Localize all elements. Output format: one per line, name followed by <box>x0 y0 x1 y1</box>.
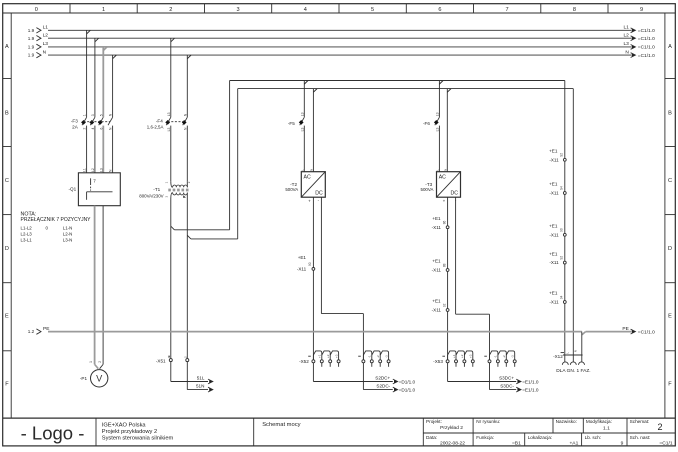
wire jog L2 drop F3 <box>95 38 99 42</box>
terminal strip X51 <box>156 356 189 364</box>
svg-text:B: B <box>5 110 9 116</box>
svg-text:-X11: -X11 <box>432 268 442 273</box>
svg-text:L3: L3 <box>300 112 304 116</box>
wire T3 plus output <box>447 197 449 360</box>
svg-text:=E1/1.0: =E1/1.0 <box>522 379 539 384</box>
svg-text:L1: L1 <box>43 25 49 31</box>
title block company lines <box>102 422 174 441</box>
svg-text:Nr rysunku:: Nr rysunku: <box>476 419 500 424</box>
terminal X11 heater tap #4 <box>549 251 566 265</box>
svg-text:+E1: +E1 <box>432 299 441 304</box>
terminal X11 heater tap #3 <box>549 224 566 238</box>
svg-text:Data:: Data: <box>426 435 437 440</box>
wire F4 to T1 left <box>170 126 172 182</box>
svg-text:4: 4 <box>91 127 95 129</box>
svg-text:A: A <box>5 44 9 50</box>
frame row ticks <box>3 79 676 351</box>
svg-text:1: 1 <box>89 361 93 363</box>
svg-text:Projekt przykładowy 2: Projekt przykładowy 2 <box>102 429 157 435</box>
svg-text:DC: DC <box>315 191 323 197</box>
svg-text:1,6-2,5A: 1,6-2,5A <box>147 125 164 130</box>
svg-text:B: B <box>668 110 672 116</box>
svg-text:L3: L3 <box>99 168 103 172</box>
terminal strip X53 <box>433 351 516 367</box>
svg-text:51L: 51L <box>197 376 205 381</box>
svg-text:L3: L3 <box>623 41 629 47</box>
svg-text:System sterowania silnikiem: System sterowania silnikiem <box>102 436 174 442</box>
svg-text:Modyfikacja:: Modyfikacja: <box>586 419 612 424</box>
wire T2 plus output <box>312 197 314 360</box>
svg-text:0: 0 <box>35 7 38 13</box>
svg-text:+2: +2 <box>326 354 330 358</box>
svg-text:Schemat mocy: Schemat mocy <box>262 422 300 428</box>
svg-text:-F3: -F3 <box>71 119 78 124</box>
svg-text:1.2: 1.2 <box>28 329 35 334</box>
wire F6 to T3 <box>438 126 440 172</box>
svg-text:Projekt:: Projekt: <box>426 419 442 424</box>
title block modyfikacja cell <box>586 419 612 431</box>
svg-text:1: 1 <box>102 7 105 13</box>
wire drop bus to F6 <box>438 81 440 118</box>
svg-text:N: N <box>573 350 577 352</box>
svg-text:+E1: +E1 <box>549 251 558 256</box>
svg-text:+E1: +E1 <box>549 291 558 296</box>
svg-text:=D1/1.0: =D1/1.0 <box>399 379 416 384</box>
svg-text:-3: -3 <box>384 355 388 358</box>
wire T3 minus output <box>456 197 490 360</box>
svg-text:C: C <box>668 178 672 184</box>
svg-text:L3: L3 <box>300 127 304 131</box>
svg-text:2: 2 <box>169 7 172 13</box>
title block project cell <box>426 419 463 431</box>
svg-text:2002-08-22: 2002-08-22 <box>440 441 465 447</box>
svg-text:=C1/1.0: =C1/1.0 <box>638 36 655 42</box>
svg-text:+E1: +E1 <box>432 216 441 221</box>
wire upper 230V bus <box>230 80 565 82</box>
svg-text:L3: L3 <box>167 112 171 116</box>
svg-text:L3-L1: L3-L1 <box>21 237 33 242</box>
svg-text:500VA: 500VA <box>421 187 434 192</box>
svg-text:500VA: 500VA <box>285 187 298 192</box>
wire X53 to S3DC+ <box>448 363 521 384</box>
wire F3 to Q1 pole2 <box>94 126 96 173</box>
svg-text:1.9: 1.9 <box>28 53 35 58</box>
terminal X11 on T3 plus #1 <box>432 216 449 230</box>
svg-text:Nazwisko:: Nazwisko: <box>556 419 577 424</box>
wire T1 secondary right to X51 <box>186 199 188 359</box>
transformer T1 <box>139 181 191 198</box>
svg-text:L2: L2 <box>91 168 95 172</box>
fuse breaker F5 <box>288 112 304 131</box>
svg-text:=C1/1.0: =C1/1.0 <box>638 45 655 51</box>
svg-text:2: 2 <box>83 127 87 129</box>
svg-text:-X11: -X11 <box>432 225 442 230</box>
svg-text:5: 5 <box>99 114 103 116</box>
svg-text:+3: +3 <box>469 354 473 358</box>
svg-text:+E1: +E1 <box>549 149 558 154</box>
wire drop N to F4 <box>186 55 188 117</box>
svg-text:86: 86 <box>442 221 446 225</box>
wire jog lower bus T3 drop <box>447 89 451 93</box>
svg-text:F: F <box>668 382 672 388</box>
svg-text:L3: L3 <box>435 127 439 131</box>
terminal X11 on T2 plus <box>297 255 315 272</box>
wire lower bus right drop <box>572 89 574 362</box>
wire X53 to S3DC- <box>490 363 522 392</box>
label S3DC- <box>500 384 539 393</box>
svg-text:-X53: -X53 <box>433 359 443 364</box>
svg-text:F: F <box>5 382 9 388</box>
wire F5 to T2 <box>303 126 305 172</box>
svg-text:7: 7 <box>506 7 509 13</box>
frame column numbers <box>35 7 643 13</box>
wire bus to T3 pin2 <box>446 89 448 172</box>
title block lb sch cell <box>585 435 624 447</box>
wire lower 230V bus <box>238 88 574 90</box>
svg-text:L2-L3: L2-L3 <box>21 231 33 236</box>
terminal X11 heater tap #2 <box>549 182 566 196</box>
svg-text:4: 4 <box>304 7 307 13</box>
terminal X11 on T3 plus #2 <box>432 259 449 273</box>
wire drop L1 to F3 pin1 <box>86 30 88 117</box>
power supply T3 <box>421 169 461 204</box>
wire X51 to 51N <box>187 362 213 392</box>
wire drop L3 to F3 pin5 <box>102 47 104 117</box>
wire bus to T2 pin2 <box>312 89 314 172</box>
svg-text:-X11: -X11 <box>549 157 559 162</box>
svg-text:-X11: -X11 <box>549 260 559 265</box>
svg-text:90: 90 <box>308 262 312 266</box>
svg-text:AC: AC <box>439 175 446 181</box>
svg-text:-X11: -X11 <box>297 267 307 272</box>
wire F3 to Q1 pole1 <box>86 126 88 173</box>
wire rail L3 <box>28 41 655 51</box>
svg-text:L3-N: L3-N <box>63 237 73 242</box>
svg-text:1.9: 1.9 <box>28 45 35 50</box>
label S2DC+ <box>375 376 415 385</box>
svg-text:S2DC-: S2DC- <box>376 384 390 389</box>
wire jog N drop F4 <box>187 55 191 59</box>
svg-text:-3: -3 <box>511 355 515 358</box>
svg-text:9: 9 <box>621 441 624 447</box>
wire branch to lower bus <box>187 89 237 239</box>
svg-text:L3: L3 <box>167 127 171 131</box>
wire X52 to S2DC+ <box>313 363 397 384</box>
svg-text:Schemat:: Schemat: <box>630 419 650 424</box>
frame left band line <box>10 13 12 418</box>
svg-text:800VA/230V: 800VA/230V <box>139 193 163 198</box>
terminal X11 heater tap #1 <box>549 149 566 163</box>
svg-text:1.9: 1.9 <box>28 36 35 41</box>
svg-text:=E1/1.0: =E1/1.0 <box>522 387 539 392</box>
svg-text:1.1: 1.1 <box>603 425 610 431</box>
svg-text:S3DC-: S3DC- <box>500 384 514 389</box>
svg-text:+2: +2 <box>460 354 464 358</box>
wire T1 secondary left to X51 <box>170 199 172 359</box>
svg-text:Lokalizacja:: Lokalizacja: <box>528 435 553 440</box>
label S2DC- <box>376 384 415 393</box>
wire jog L1 drop <box>87 30 91 34</box>
title block sch nast cell <box>630 435 673 447</box>
svg-text:N: N <box>310 169 314 171</box>
svg-text:7: 7 <box>93 179 96 184</box>
svg-text:N: N <box>43 49 47 55</box>
svg-text:DC: DC <box>451 191 459 197</box>
fuse breaker F6 <box>423 112 439 131</box>
svg-text:1: 1 <box>83 114 87 116</box>
title block lokalizacja cell <box>528 435 579 447</box>
note NOTA block <box>21 211 92 242</box>
svg-text:Lb. sch:: Lb. sch: <box>585 435 601 440</box>
svg-text:=C1/1: =C1/1 <box>659 441 672 447</box>
svg-text:-P1: -P1 <box>80 376 88 381</box>
svg-text:-1: -1 <box>494 355 498 358</box>
svg-text:AC: AC <box>304 175 311 181</box>
svg-text:L2-N: L2-N <box>63 231 73 236</box>
power supply T2 <box>285 169 325 204</box>
svg-text:=C1/1.0: =C1/1.0 <box>638 53 655 59</box>
wire F3 to Q1 pole4 <box>112 126 114 173</box>
svg-text:+E1: +E1 <box>549 224 558 229</box>
switch Q1 box <box>69 168 121 206</box>
svg-text:2: 2 <box>98 361 102 363</box>
svg-text:1.9: 1.9 <box>28 28 35 33</box>
svg-text:D: D <box>668 246 672 252</box>
svg-text:E: E <box>5 313 9 319</box>
svg-text:S2: S2 <box>560 256 564 260</box>
svg-text:-F6: -F6 <box>423 121 430 126</box>
svg-text:-X12: -X12 <box>553 354 563 359</box>
wire X52 to S2DC- <box>363 363 397 392</box>
svg-text:+E1: +E1 <box>432 259 441 264</box>
terminal strip X52 <box>299 351 390 367</box>
label S3DC+ <box>499 376 539 385</box>
circuit breaker F3 <box>71 113 113 130</box>
svg-text:+E1: +E1 <box>549 182 558 187</box>
svg-text:S2: S2 <box>560 153 564 157</box>
svg-text:C: C <box>5 178 9 184</box>
svg-text:V: V <box>96 374 103 384</box>
svg-text:2: 2 <box>657 422 662 432</box>
svg-text:-2: -2 <box>502 355 506 358</box>
wire F3 to Q1 pole3 <box>102 126 104 173</box>
wire rail L1 <box>28 25 655 34</box>
wire drop L2 to F4 <box>170 38 172 117</box>
svg-text:N: N <box>444 169 448 171</box>
svg-text:-Q1: -Q1 <box>69 186 77 191</box>
svg-text:-X11: -X11 <box>432 308 442 313</box>
svg-text:9: 9 <box>640 7 643 13</box>
svg-text:IGE+XAO Polska: IGE+XAO Polska <box>102 422 147 428</box>
svg-text:-X11: -X11 <box>549 232 559 237</box>
svg-text:S2DC+: S2DC+ <box>375 376 390 381</box>
svg-text:A: A <box>668 44 672 50</box>
title block data cell <box>426 435 465 447</box>
wire upper bus right drop <box>564 81 566 362</box>
svg-text:5: 5 <box>371 7 374 13</box>
wire X51 to 51L <box>171 362 213 384</box>
svg-text:L1: L1 <box>83 168 87 172</box>
wire PE drop to X12 <box>581 332 583 362</box>
frame top band line <box>3 12 676 14</box>
svg-text:=B1: =B1 <box>512 441 521 447</box>
wire jog N drop F3 <box>113 55 117 59</box>
wire Q1 to voltmeter left <box>94 206 96 365</box>
svg-text:Sch. nast:: Sch. nast: <box>630 435 651 440</box>
svg-text:+3: +3 <box>334 354 338 358</box>
svg-text:Przykład 2: Przykład 2 <box>440 425 463 431</box>
title block schemat cell <box>630 419 663 432</box>
svg-text:L1: L1 <box>623 25 629 31</box>
svg-text:-X11: -X11 <box>549 300 559 305</box>
svg-text:92: 92 <box>442 303 446 307</box>
svg-text:-F4: -F4 <box>156 119 163 124</box>
wire drop bus to F5 <box>303 81 305 118</box>
svg-text:L1-N: L1-N <box>63 226 73 231</box>
svg-text:6: 6 <box>438 7 441 13</box>
frame column ticks <box>70 4 608 13</box>
wire rail PE <box>28 326 655 335</box>
svg-text:=C1/1.0: =C1/1.0 <box>638 28 655 34</box>
svg-text:D: D <box>5 246 9 252</box>
svg-text:=C1/1.0: =C1/1.0 <box>638 329 655 335</box>
svg-text:E: E <box>668 313 672 319</box>
svg-text:90: 90 <box>560 228 564 232</box>
svg-text:94: 94 <box>560 295 564 299</box>
frame row letters <box>5 44 672 388</box>
title block grid <box>3 418 676 446</box>
svg-text:=D1/1.0: =D1/1.0 <box>399 387 416 392</box>
terminal X11 heater tap #5 <box>549 291 566 305</box>
svg-text:+1: +1 <box>318 354 322 358</box>
circuit breaker F4 <box>147 112 188 131</box>
svg-text:3: 3 <box>237 7 240 13</box>
svg-text:L3: L3 <box>435 112 439 116</box>
wire drop N to F3 pinN <box>112 55 114 117</box>
title block funkcja cell <box>476 435 521 447</box>
wire jog L2 drop F4 <box>171 38 175 42</box>
wire jog L3 drop <box>103 47 107 51</box>
svg-text:L2: L2 <box>623 33 629 39</box>
wire T2 minus output <box>321 197 363 360</box>
svg-text:-2: -2 <box>376 355 380 358</box>
wire drop L2 to F3 pin3 <box>94 38 96 117</box>
svg-text:2A: 2A <box>72 125 79 130</box>
svg-text:3: 3 <box>91 114 95 116</box>
svg-text:Funkcja:: Funkcja: <box>476 435 494 440</box>
svg-text:-X11: -X11 <box>549 191 559 196</box>
svg-text:8: 8 <box>573 7 576 13</box>
wire rail L2 <box>28 33 655 43</box>
svg-text:- Logo -: - Logo - <box>21 422 85 443</box>
svg-text:L2: L2 <box>43 33 49 39</box>
terminal strip X12 <box>553 350 584 365</box>
svg-text:L1-L2: L1-L2 <box>21 226 33 231</box>
svg-text:PE: PE <box>622 326 628 332</box>
svg-text:+1: +1 <box>452 354 456 358</box>
wire F4 to T1 right <box>186 126 188 182</box>
frame right band line <box>664 13 666 418</box>
wire Q1 to voltmeter right <box>102 206 104 365</box>
svg-text:+E1: +E1 <box>298 255 307 260</box>
wire jog upper bus F6 drop <box>439 81 443 85</box>
svg-text:S3DC+: S3DC+ <box>499 376 514 381</box>
wire jog lower bus T2 drop <box>313 89 317 93</box>
wire branch to upper bus <box>171 81 230 230</box>
svg-text:-F5: -F5 <box>288 121 295 126</box>
svg-text:+A1: +A1 <box>569 441 578 447</box>
svg-text:51N: 51N <box>196 384 204 389</box>
svg-text:-T1: -T1 <box>153 187 160 192</box>
voltmeter P1 <box>80 361 108 387</box>
svg-text:N: N <box>625 49 629 55</box>
svg-text:S4: S4 <box>560 186 564 190</box>
svg-text:-X51: -X51 <box>156 359 166 364</box>
svg-text:L3: L3 <box>43 41 49 47</box>
svg-text:88: 88 <box>442 263 446 267</box>
svg-text:DLA GN. 1 FAZ.: DLA GN. 1 FAZ. <box>556 368 590 374</box>
terminal X11 on T3 plus #3 <box>432 299 449 313</box>
svg-text:-X52: -X52 <box>299 359 309 364</box>
wire rail N <box>28 49 655 59</box>
svg-text:-1: -1 <box>368 355 372 358</box>
wire jog upper bus F5 drop <box>304 81 308 85</box>
svg-text:PRZEŁĄCZNIK 7 POZYCYJNY: PRZEŁĄCZNIK 7 POZYCYJNY <box>21 217 92 223</box>
